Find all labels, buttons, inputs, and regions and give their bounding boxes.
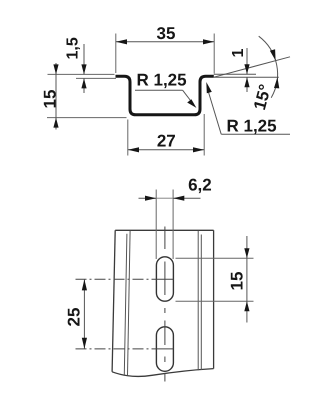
dim 35: left extension line — [115, 34, 117, 74]
dim 1,5: upper arrow (points down) — [81, 64, 86, 74]
angle dimension arc — [259, 36, 278, 97]
dim 35: right extension line — [213, 34, 215, 74]
dim 6,2: dimension line right part — [173, 197, 200, 199]
dim 6,2: right extension line — [172, 190, 174, 260]
dim 15: top arrow (points down) — [53, 64, 58, 74]
dim 1,5: lower arrow (points up) — [81, 78, 86, 88]
dim 1,5: dimension line lower part — [83, 78, 85, 93]
dim 1: upper arrow (points down) — [244, 64, 249, 74]
svg-text:27: 27 — [157, 131, 176, 150]
dim 1: dimension line lower part — [246, 77, 248, 92]
label R 1,25 (bottom): underline — [221, 133, 290, 135]
right bend line outer — [200, 235, 202, 371]
dim 15 (slot length): dimension line — [246, 236, 248, 323]
svg-text:15: 15 — [227, 272, 246, 291]
dim 25: dimension line — [83, 279, 85, 349]
svg-text:1: 1 — [230, 49, 247, 58]
dim 15 (slot length): top arrow (points down) — [244, 248, 249, 258]
dim 1,5: dimension line upper part — [83, 44, 85, 74]
dim 35: left arrow — [116, 39, 127, 44]
dim 6,2: left arrow (points right) — [145, 196, 156, 201]
bottom slotted hole — [156, 327, 173, 372]
flange tip: 15 deg slanted construction line — [214, 57, 290, 77]
rail top edge — [115, 229, 213, 231]
dim 27: dimension line — [128, 149, 204, 151]
left bend line outer — [124, 234, 127, 375]
dim 15: dimension line — [55, 63, 57, 130]
dim 27: left arrow — [128, 147, 139, 152]
rail bottom break line (gentle wave) — [112, 369, 214, 377]
svg-text:6,2: 6,2 — [188, 176, 212, 195]
right bend line inner — [197, 231, 199, 370]
dim 27: right extension line — [203, 114, 205, 156]
dim 15 (slot length): bottom extension line — [176, 300, 254, 302]
svg-text:1,5: 1,5 — [65, 37, 82, 59]
dim 6,2: left extension line — [155, 190, 157, 260]
label R 1,25 (bottom): leader line — [209, 93, 222, 135]
dim 15: bottom arrow (points up) — [53, 118, 58, 128]
flange tip: upper surface extension line — [214, 73, 256, 75]
top slot cross line — [156, 278, 173, 280]
dim 27: right arrow — [193, 147, 204, 152]
bottom slot cross line — [156, 348, 173, 350]
horizontal centerline through bottom slot (dash-dot) — [76, 348, 157, 350]
dim 6,2: dimension line left part — [139, 197, 157, 199]
dim 6,2: right arrow (points left) — [173, 196, 184, 201]
dim 15 (slot length): bottom arrow (points up) — [244, 301, 249, 311]
top slotted hole — [156, 257, 173, 301]
svg-text:R 1,25: R 1,25 — [137, 70, 187, 89]
dim 1,5: top extension line (shared with dim 15, flange top surface) — [48, 73, 115, 75]
angle arc arrow at slanted line (points down along arc) — [270, 49, 276, 60]
dim 35: dimension line — [116, 41, 214, 43]
label R 1,25 (top): underline — [135, 89, 183, 91]
dim 27: left extension line — [127, 120, 129, 156]
rail left edge (slightly slanted break cut) — [112, 230, 115, 371]
svg-text:25: 25 — [65, 308, 84, 327]
dim 15 (slot length): top extension line — [176, 257, 254, 259]
dim 1,5: bottom extension line (flange bottom surface) — [76, 77, 116, 79]
dim 35: right arrow — [203, 39, 214, 44]
dim 25: bottom arrow (points down) — [82, 338, 87, 349]
label R 1,25 (top): leader line — [183, 90, 194, 104]
left bend line inner — [128, 231, 131, 375]
rail profile (hat section, thick outline) — [116, 76, 214, 115]
dim 15: bottom extension line (rail bottom) — [47, 117, 127, 119]
svg-text:15: 15 — [41, 90, 60, 109]
angle arc arrow at horizontal line (points up along arc) — [274, 77, 279, 88]
svg-text:R 1,25: R 1,25 — [227, 117, 277, 136]
svg-text:35: 35 — [157, 24, 176, 43]
horizontal centerline through top slot (dash-dot) — [76, 278, 157, 280]
dim 1: dimension line upper part — [246, 48, 248, 74]
flange tip: lower surface / angle reference line — [214, 76, 279, 78]
label R 1,25 (top): leader arrowhead — [187, 99, 196, 108]
dim 1: lower arrow (points up) — [244, 77, 249, 87]
dim 6,2: dimension line middle part — [156, 197, 173, 199]
label R 1,25 (bottom): leader arrowhead — [206, 82, 212, 93]
rail right edge — [213, 230, 215, 368]
vertical centerline through slots (dash segments) — [164, 227, 166, 250]
dim 25: top arrow (points up) — [82, 279, 87, 290]
